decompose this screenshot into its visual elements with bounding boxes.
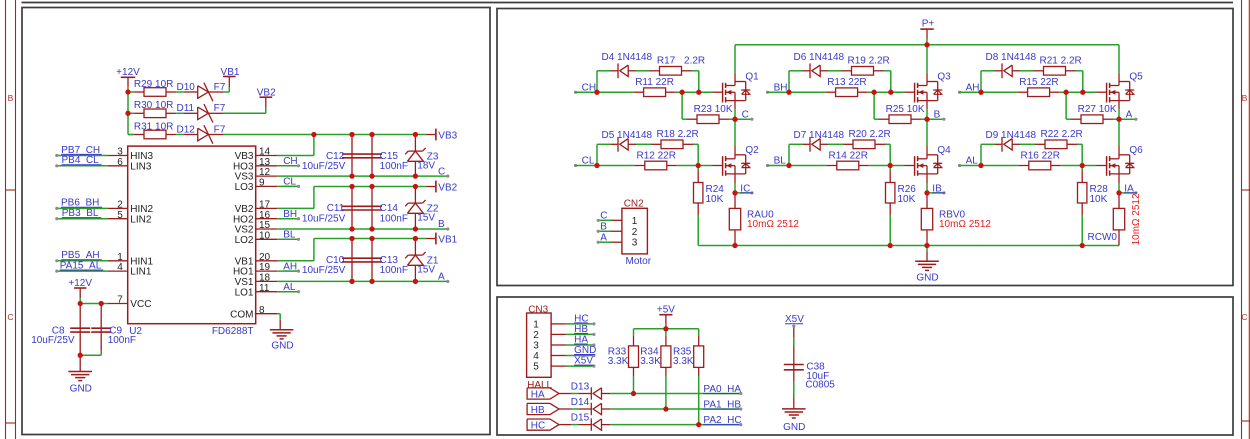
- block border: power stage (top right): [497, 9, 1233, 286]
- svg-text:Q5: Q5: [1129, 72, 1143, 83]
- sheet frame left lines: [5, 0, 7, 439]
- node C junction: [732, 117, 737, 122]
- wire 22R to gate: [677, 165, 713, 167]
- svg-text:3.3K: 3.3K: [673, 356, 694, 367]
- svg-text:3: 3: [533, 341, 539, 352]
- svg-text:2: 2: [533, 330, 539, 341]
- capacitor C14 100nF: [371, 187, 373, 207]
- diode D12 F7: [184, 134, 198, 136]
- resistor R16 22R: [981, 165, 1019, 167]
- CN2 pin 2 net B: [611, 230, 622, 232]
- CN3 pin 4 net GND: [551, 355, 566, 357]
- wire PA1_HB row: [610, 408, 740, 410]
- junction CL: [594, 163, 599, 168]
- svg-text:LIN3: LIN3: [130, 161, 152, 172]
- svg-text:HC: HC: [531, 420, 545, 431]
- junction VB2/C11: [349, 184, 354, 189]
- svg-text:3: 3: [632, 238, 638, 249]
- wire 10K to node B: [921, 118, 927, 120]
- junction VB3/Z3: [413, 132, 418, 137]
- wire P+ rail: [735, 44, 1119, 46]
- pin 14 VB3: [256, 155, 278, 157]
- svg-text:R18 2.2R: R18 2.2R: [657, 129, 699, 140]
- junction +5V: [663, 326, 668, 331]
- input flag HC: [527, 419, 559, 430]
- wire to resistor R30: [128, 112, 134, 114]
- svg-text:VB1: VB1: [438, 235, 457, 246]
- wire C9 bottom to C8 bottom: [100, 351, 102, 356]
- junction VB3/pin14 drop: [311, 132, 316, 137]
- transistor Q1: [699, 91, 713, 93]
- diode D7 1N4148: [803, 143, 811, 145]
- svg-text:4: 4: [533, 351, 539, 362]
- svg-text:1: 1: [632, 216, 638, 227]
- pin 9 LO3: [256, 185, 278, 187]
- junction R34 bottom: [663, 406, 668, 411]
- capacitor C11 10uF/25V: [351, 187, 353, 207]
- wire diode to R18: [636, 143, 651, 145]
- wire diode to R17: [636, 70, 650, 72]
- wire BH up to diode: [788, 71, 790, 92]
- svg-text:Q2: Q2: [745, 145, 759, 156]
- svg-text:VB3: VB3: [438, 131, 457, 142]
- svg-text:LIN1: LIN1: [130, 267, 152, 278]
- pin 13 HO3: [256, 165, 278, 167]
- svg-text:10uF/25V: 10uF/25V: [31, 335, 75, 346]
- wire 22R to gate: [868, 91, 905, 93]
- svg-text:D4 1N4148: D4 1N4148: [602, 52, 653, 63]
- svg-text:15V: 15V: [417, 213, 435, 224]
- resistor R18 2.2R: [651, 143, 661, 145]
- node B junction: [924, 117, 929, 122]
- ground GND (power stage): [926, 246, 928, 253]
- svg-text:11: 11: [259, 283, 270, 294]
- wire D11 to VB2: [224, 112, 266, 114]
- svg-text:CN3: CN3: [528, 304, 548, 315]
- junction R35 bottom: [696, 422, 701, 427]
- sheet frame left zone tick y423: [6, 422, 16, 424]
- resistor R26 10K (pulldown): [889, 166, 891, 171]
- wire drain Q5 to rail: [1118, 73, 1120, 82]
- junction C8/C9 bottom: [78, 353, 83, 358]
- shunt resistor RCW0 10m 2512: [1118, 193, 1120, 209]
- wire +12V rail down to R31 row: [127, 87, 129, 134]
- CN3 pin 3 net HA: [551, 344, 566, 346]
- resistor R33 3.3K: [633, 329, 635, 336]
- wire VB2 bus row: [314, 186, 426, 188]
- svg-text:Q1: Q1: [745, 72, 759, 83]
- resistor R20 2.2R: [843, 143, 853, 145]
- junction VB2/Z2: [413, 184, 418, 189]
- wire diode to R22: [1020, 143, 1035, 145]
- svg-text:100nF: 100nF: [108, 335, 136, 346]
- block border: hall input (bottom right): [497, 297, 1233, 435]
- diode D6 1N4148: [803, 70, 811, 72]
- net stub node A: [1119, 118, 1136, 120]
- IC U2 FD6288T body: [128, 146, 256, 324]
- svg-text:+12V: +12V: [68, 278, 92, 289]
- svg-text:D5 1N4148: D5 1N4148: [602, 130, 653, 141]
- wire source Q3 to node B: [926, 101, 928, 110]
- wire to resistor R29: [128, 91, 134, 93]
- svg-text:10uF/25V: 10uF/25V: [302, 213, 346, 224]
- svg-text:D14: D14: [571, 397, 590, 408]
- wire COM to ground: [277, 313, 280, 315]
- top border segment: [22, 2, 1234, 4]
- CN2 pin 3 net A: [611, 241, 622, 243]
- sheet frame right zone tick y190: [1242, 189, 1250, 191]
- resistor R35 3.3K: [698, 329, 700, 336]
- svg-text:LO1: LO1: [235, 287, 254, 298]
- svg-text:D8 1N4148: D8 1N4148: [986, 52, 1037, 63]
- capacitor C13 100nF: [371, 239, 373, 259]
- junction gate: [696, 163, 701, 168]
- net label AL: [958, 164, 961, 167]
- diode D8 1N4148: [995, 70, 1003, 72]
- junction dot: [349, 226, 354, 231]
- pin 6 LIN3 with net label PB4_CL: [107, 165, 127, 167]
- svg-text:R23 10K: R23 10K: [694, 104, 733, 115]
- wire drain Q4 from node: [926, 119, 928, 146]
- svg-text:BH: BH: [774, 82, 788, 93]
- resistor R28 10K (pulldown): [1081, 166, 1083, 171]
- resistor R12 22R: [597, 165, 635, 167]
- wire 10K to node C: [729, 118, 735, 120]
- pin 2 HIN2 with net label PB6_BH: [107, 207, 127, 209]
- diode D15 1N4148: [559, 424, 571, 426]
- net label IC: [735, 192, 752, 194]
- sheet frame right lines: [1241, 0, 1243, 439]
- svg-text:B: B: [8, 93, 14, 103]
- wire pin14 drop: [313, 135, 315, 156]
- pin 10 LO2: [256, 238, 278, 240]
- pin 4 LIN1 with net label PA15_AL: [107, 270, 127, 272]
- junction R33 bottom: [631, 391, 636, 396]
- junction R28/rail: [1080, 243, 1085, 248]
- resistor R19 2.2R: [842, 70, 852, 72]
- junction gate: [888, 163, 893, 168]
- svg-text:100nF: 100nF: [380, 161, 408, 172]
- svg-text:10uF/25V: 10uF/25V: [302, 265, 346, 276]
- pin 16 HO2: [256, 218, 278, 220]
- wire R29 to D10: [176, 91, 184, 93]
- diode D5 1N4148: [611, 143, 619, 145]
- junction IA: [1116, 190, 1121, 195]
- junction VB3/C12: [349, 132, 354, 137]
- net label AH: [958, 91, 961, 94]
- transistor Q4: [905, 165, 915, 167]
- wire +5V distribution: [634, 328, 699, 330]
- resistor R25 10K: [873, 92, 875, 119]
- svg-text:R27 10K: R27 10K: [1078, 104, 1117, 115]
- svg-text:9: 9: [259, 178, 265, 189]
- junction CH: [594, 90, 599, 95]
- net label BL: [766, 164, 769, 167]
- junction gate: [1080, 163, 1085, 168]
- transistor Q3: [891, 91, 905, 93]
- net label IB: [927, 192, 944, 194]
- wire diode to R21: [1020, 70, 1034, 72]
- svg-text:R16 22R: R16 22R: [1021, 150, 1060, 161]
- svg-text:R15 22R: R15 22R: [1019, 77, 1058, 88]
- junction gate/pulldown: [1063, 90, 1068, 95]
- svg-text:+12V: +12V: [116, 67, 140, 78]
- svg-text:C: C: [7, 312, 13, 322]
- wire VS row to node A: [277, 280, 448, 282]
- svg-text:D9 1N4148: D9 1N4148: [986, 130, 1037, 141]
- wire pin17 drop: [313, 187, 315, 209]
- svg-text:R20 2.2R: R20 2.2R: [849, 129, 891, 140]
- junction P+ rail: [924, 42, 929, 47]
- svg-text:D12: D12: [177, 124, 196, 135]
- resistor R22 2.2R: [1035, 143, 1045, 145]
- net stub node C: [735, 118, 752, 120]
- junction dot: [349, 173, 354, 178]
- junction BL: [786, 163, 791, 168]
- wire to resistor R31: [128, 134, 134, 136]
- svg-text:10: 10: [259, 230, 271, 241]
- svg-text:C: C: [600, 211, 607, 222]
- resistor R11 22R: [597, 91, 634, 93]
- svg-text:COM: COM: [230, 309, 253, 320]
- pin 19 HO1: [256, 270, 278, 272]
- junction VB2/C14: [369, 184, 374, 189]
- svg-text:D7 1N4148: D7 1N4148: [794, 130, 845, 141]
- junction gate/2.2R: [696, 90, 701, 95]
- svg-text:HB: HB: [531, 405, 545, 416]
- net label BH: [766, 91, 769, 94]
- node A junction: [1116, 117, 1121, 122]
- input flag HA: [527, 388, 559, 399]
- pin 3 HIN3 with net label PB7_CH: [107, 155, 127, 157]
- capacitor C38 10uF C0805: [793, 326, 795, 338]
- junction gate/2.2R: [1080, 90, 1085, 95]
- svg-text:B: B: [1242, 93, 1248, 103]
- junction dot: [413, 226, 418, 231]
- wire R30 to D11: [176, 112, 184, 114]
- svg-text:A: A: [600, 232, 607, 243]
- pin 20 VB1: [256, 260, 278, 262]
- junction AL: [978, 163, 983, 168]
- resistor R30 10R: [134, 112, 144, 114]
- wire 22R to gate: [1060, 91, 1097, 93]
- svg-text:A: A: [1126, 109, 1133, 120]
- svg-text:LO2: LO2: [235, 235, 254, 246]
- svg-text:1: 1: [533, 319, 539, 330]
- junction C8 top: [78, 301, 83, 306]
- svg-text:7: 7: [117, 295, 123, 306]
- junction RAU0/rail: [732, 243, 737, 248]
- wire drain Q2 from node: [734, 119, 736, 146]
- svg-text:5: 5: [117, 210, 123, 221]
- diode D10 F7: [184, 91, 198, 93]
- svg-text:Motor: Motor: [626, 256, 652, 267]
- diode D9 1N4148: [995, 143, 1003, 145]
- svg-text:R17: R17: [657, 56, 676, 67]
- resistor R29 10R: [134, 91, 144, 93]
- wire VS row to node C: [277, 175, 448, 177]
- input flag HB: [527, 403, 559, 414]
- wire 2.2R down to gate node: [885, 143, 890, 145]
- wire 2.2R down to gate node: [1077, 143, 1082, 145]
- diode D4 1N4148: [611, 70, 619, 72]
- svg-text:R11 22R: R11 22R: [635, 77, 674, 88]
- svg-text:R14 22R: R14 22R: [829, 150, 868, 161]
- junction at R29 input: [125, 89, 130, 94]
- svg-text:Q3: Q3: [937, 72, 951, 83]
- junction IC: [732, 190, 737, 195]
- svg-text:R25 10K: R25 10K: [886, 104, 925, 115]
- svg-text:D15: D15: [571, 412, 590, 423]
- block border: gate driver (left): [22, 8, 490, 435]
- junction at R30 input: [125, 111, 130, 116]
- svg-text:R19 2.2R: R19 2.2R: [848, 56, 890, 67]
- svg-text:GND: GND: [916, 273, 938, 284]
- power bar VB2 (right): [426, 186, 436, 188]
- pin 17 VB2: [256, 207, 278, 209]
- svg-text:Q6: Q6: [1129, 145, 1143, 156]
- wire VS row to node B: [277, 228, 448, 230]
- svg-text:C: C: [1241, 312, 1247, 322]
- svg-text:RCW0: RCW0: [1088, 232, 1118, 243]
- shunt resistor RAU0 10m 2512: [734, 193, 736, 209]
- svg-text:VCC: VCC: [130, 299, 151, 310]
- svg-text:15V: 15V: [417, 265, 435, 276]
- net stub node B: [927, 118, 944, 120]
- junction dot: [349, 279, 354, 284]
- svg-text:R31 10R: R31 10R: [134, 121, 173, 132]
- wire PA0_HA row: [610, 393, 740, 395]
- resistor R14 22R: [789, 165, 827, 167]
- svg-text:C: C: [742, 109, 749, 120]
- svg-text:B: B: [934, 109, 941, 120]
- wire source Q4 to IB: [926, 174, 928, 183]
- wire CH up to diode: [596, 71, 598, 92]
- svg-text:D13: D13: [571, 381, 590, 392]
- pin 7 VCC: [107, 303, 127, 305]
- capacitor C15 100nF: [371, 135, 373, 155]
- resistor R31 10R: [134, 134, 144, 136]
- capacitor C12 10uF/25V: [351, 135, 353, 155]
- wire AL up to diode: [980, 144, 982, 165]
- svg-text:A: A: [438, 272, 445, 283]
- wire GND rail (bottom): [698, 245, 1119, 247]
- resistor R13 22R: [789, 91, 826, 93]
- svg-text:5: 5: [533, 362, 539, 373]
- ground GND (COM): [279, 320, 281, 330]
- net label IA: [1119, 192, 1136, 194]
- transistor Q2: [713, 165, 723, 167]
- svg-text:B: B: [438, 219, 445, 230]
- svg-text:18V: 18V: [417, 161, 435, 172]
- wire diode to R19: [828, 70, 842, 72]
- ground GND (C8/C9): [79, 355, 81, 371]
- junction C9 top: [99, 301, 104, 306]
- junction R26/rail: [888, 243, 893, 248]
- pin 1 HIN1 with net label PB5_AH: [107, 260, 127, 262]
- svg-text:GND: GND: [271, 341, 293, 352]
- wire diode to R20: [828, 143, 843, 145]
- svg-text:FD6288T: FD6288T: [212, 326, 254, 337]
- junction dot: [413, 279, 418, 284]
- svg-text:+5V: +5V: [657, 305, 675, 316]
- junction BH: [786, 90, 791, 95]
- wire 2.2R down to gate node: [884, 70, 891, 72]
- svg-text:HA: HA: [531, 389, 545, 400]
- zener Z2 15V: [414, 187, 416, 204]
- pin 5 LIN2 with net label PB3_BL: [107, 218, 127, 220]
- junction VB1/C10: [349, 236, 354, 241]
- svg-text:AL: AL: [966, 156, 979, 167]
- svg-text:F7: F7: [214, 82, 226, 93]
- resistor R27 10K: [1065, 92, 1067, 119]
- pin 15 VS2: [256, 228, 278, 230]
- wire source Q1 to node C: [734, 101, 736, 110]
- net label CH: [574, 91, 577, 94]
- capacitor C9 100nF: [100, 304, 102, 329]
- svg-text:D6 1N4148: D6 1N4148: [794, 52, 845, 63]
- junction VB1/Z1: [413, 236, 418, 241]
- svg-text:R29 10R: R29 10R: [134, 79, 173, 90]
- svg-text:B: B: [600, 221, 607, 232]
- junction AH: [978, 90, 983, 95]
- junction gate/2.2R: [888, 90, 893, 95]
- CN3 pin 2 net HB: [551, 333, 566, 335]
- svg-text:10mΩ 2512: 10mΩ 2512: [1131, 193, 1142, 245]
- svg-text:F7: F7: [214, 124, 226, 135]
- wire PA2_HC row: [610, 424, 740, 426]
- svg-text:D10: D10: [177, 82, 196, 93]
- wire AH up to diode: [980, 71, 982, 92]
- resistor R21 2.2R: [1034, 70, 1044, 72]
- svg-text:2.2R: 2.2R: [684, 56, 705, 67]
- svg-text:10mΩ 2512: 10mΩ 2512: [939, 219, 991, 230]
- wire drain Q1 to rail: [734, 73, 736, 82]
- svg-text:10uF/25V: 10uF/25V: [302, 161, 346, 172]
- svg-text:R22 2.2R: R22 2.2R: [1041, 129, 1083, 140]
- wire VB3 bus row (D12 output): [224, 134, 427, 136]
- junction gate/pulldown: [871, 90, 876, 95]
- pin 11 LO1: [256, 291, 278, 293]
- wire R31 to D12: [176, 134, 184, 136]
- sheet frame right zone tick y421: [1242, 420, 1250, 422]
- junction gate/pulldown: [679, 90, 684, 95]
- svg-text:6: 6: [117, 157, 123, 168]
- pin 8 COM: [256, 313, 278, 315]
- svg-text:LO3: LO3: [235, 182, 254, 193]
- wire 22R to gate: [1061, 165, 1097, 167]
- power bar VB1 (right): [426, 238, 436, 240]
- wire CL up to diode: [596, 144, 598, 165]
- wire 22R to gate: [869, 165, 905, 167]
- wire source Q5 to node A: [1118, 101, 1120, 110]
- junction VB3/C15: [369, 132, 374, 137]
- sheet frame left zone tick y190: [6, 189, 16, 191]
- svg-text:R13 22R: R13 22R: [827, 77, 866, 88]
- svg-text:R12 22R: R12 22R: [637, 150, 676, 161]
- net label CL: [574, 164, 577, 167]
- svg-text:LIN2: LIN2: [130, 214, 152, 225]
- svg-text:10K: 10K: [1090, 194, 1108, 205]
- svg-text:R21 2.2R: R21 2.2R: [1040, 56, 1082, 67]
- transistor Q6: [1097, 165, 1107, 167]
- wire VB1 bus row: [314, 238, 426, 240]
- resistor R23 10K: [681, 92, 683, 119]
- svg-text:8: 8: [259, 305, 265, 316]
- wire D10 to VB1: [224, 91, 230, 93]
- junction GND rail center: [924, 243, 929, 248]
- svg-text:VB2: VB2: [438, 183, 457, 194]
